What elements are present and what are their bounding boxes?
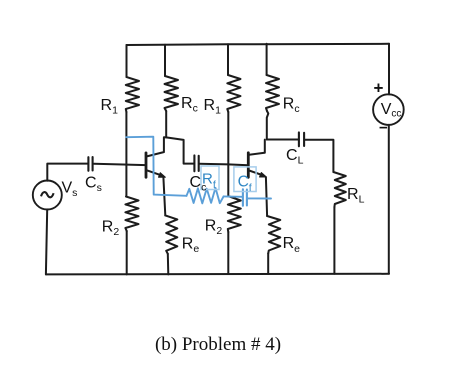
svg-text:R2: R2 xyxy=(205,218,223,238)
source Vcc xyxy=(373,94,404,125)
wire Re stage2 bottom xyxy=(267,254,269,274)
wire base node vertical stage1 xyxy=(125,112,127,197)
wire bottom rail xyxy=(46,273,389,276)
resistor Rf xyxy=(187,188,224,204)
capacitor Cc xyxy=(194,155,198,171)
svg-text:R1: R1 xyxy=(101,97,119,117)
svg-text:RL: RL xyxy=(347,186,365,206)
wire Vs bottom xyxy=(46,209,47,274)
capacitor Cs xyxy=(88,157,92,171)
svg-text:R1: R1 xyxy=(204,97,222,117)
capacitor Cf xyxy=(243,189,247,206)
svg-text:+: + xyxy=(374,79,384,98)
wire Cs to Q1 base xyxy=(94,164,146,165)
wire Re stage1 bottom xyxy=(167,254,170,275)
svg-text:(b) Problem # 4): (b) Problem # 4) xyxy=(155,334,281,355)
wire R2 stage1 bottom xyxy=(126,231,128,274)
capacitor CL xyxy=(299,132,304,146)
svg-text:−: − xyxy=(379,120,388,137)
wire Rc stage1 top xyxy=(164,45,166,76)
resistor R2 stage1 xyxy=(125,197,138,232)
svg-text:Rc: Rc xyxy=(283,96,300,116)
wire Vs to top node xyxy=(47,164,88,181)
resistor R1 stage2 xyxy=(227,75,240,112)
label box Cf xyxy=(234,167,256,192)
wire Vcc top drop xyxy=(388,44,390,95)
resistor R2 stage2 xyxy=(228,197,241,233)
wire RL bottom xyxy=(333,207,335,274)
wire top rail xyxy=(127,44,390,45)
wire collector node to Cc xyxy=(164,137,194,163)
wire Rf to Cf xyxy=(224,195,243,197)
wire Vcc bottom drop xyxy=(388,125,390,274)
wire Cc to Q2 base xyxy=(199,164,248,166)
wire CL to RL xyxy=(304,140,333,172)
svg-text:Re: Re xyxy=(283,235,301,255)
wire Rc stage1 bottom to collector node xyxy=(165,111,167,137)
wire Cf to Q2 emitter xyxy=(247,197,271,199)
svg-text:R2: R2 xyxy=(102,219,120,239)
wire R1 stage1 top xyxy=(126,45,128,77)
source Vs xyxy=(33,181,62,210)
resistor Rc stage1 xyxy=(165,76,179,111)
wire Q1 emitter down xyxy=(163,177,165,215)
wire R1 stage2 top xyxy=(227,44,229,75)
wire Rc stage2 bottom to collector node xyxy=(267,111,269,140)
resistor Rc stage2 xyxy=(266,75,279,111)
svg-text:Rc: Rc xyxy=(181,95,198,115)
label box Rf xyxy=(201,166,219,190)
svg-text:Vs: Vs xyxy=(62,180,78,200)
svg-text:CL: CL xyxy=(286,147,304,167)
wire R2 stage2 bottom xyxy=(227,232,229,274)
wire Q2 emitter down xyxy=(266,177,267,216)
resistor R1 stage1 xyxy=(126,77,139,112)
svg-text:Cs: Cs xyxy=(85,175,102,195)
resistor Re stage2 xyxy=(267,216,280,254)
wire Rc stage2 top xyxy=(266,44,268,75)
resistor RL xyxy=(333,172,345,207)
transistor Q2 xyxy=(248,140,266,178)
svg-text:Re: Re xyxy=(182,235,200,255)
transistor Q1 xyxy=(146,137,165,177)
svg-text:Vcc: Vcc xyxy=(381,101,402,120)
wire blue feedback tap xyxy=(126,137,271,206)
resistor Re stage1 xyxy=(165,215,177,253)
wire base node vertical stage2 xyxy=(228,112,229,197)
wire collector node to CL xyxy=(267,139,299,141)
